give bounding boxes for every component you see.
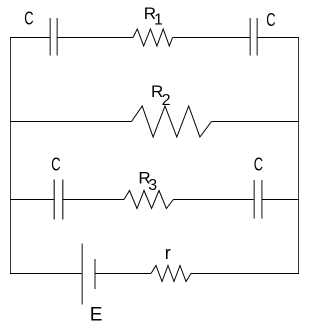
label C (top left capacitor): [24, 9, 33, 29]
svg-text:C: C: [24, 9, 33, 29]
svg-text:1: 1: [154, 12, 163, 29]
left rail wire: [10, 38, 12, 274]
label R3: [138, 169, 157, 194]
svg-text:E: E: [90, 305, 103, 326]
resistor R3: [124, 191, 173, 209]
label E: [90, 305, 103, 326]
svg-text:2: 2: [162, 92, 171, 109]
wire: resistor r to right rail: [191, 273, 299, 275]
svg-text:3: 3: [148, 177, 157, 194]
wire: capacitor C4 to right rail: [262, 199, 299, 201]
wire: bottom branch, left rail to battery E: [10, 273, 82, 275]
battery E (cell, long plate left / short plate right): [82, 244, 95, 305]
label C (top right capacitor): [266, 10, 275, 30]
resistor R1: [133, 29, 173, 46]
wire: second branch, left rail to resistor R2: [10, 121, 132, 123]
right rail wire: [298, 38, 300, 274]
wire: top branch, left rail to capacitor C1: [10, 37, 50, 39]
label R1: [144, 4, 163, 28]
resistor R2: [132, 106, 212, 137]
capacitor C (top right): [250, 18, 257, 56]
resistor r: [151, 266, 191, 282]
capacitor C (top left): [50, 18, 57, 56]
svg-text:r: r: [165, 243, 171, 263]
label r: [165, 243, 171, 263]
svg-text:C: C: [254, 155, 263, 175]
wire: resistor R1 to capacitor C2: [173, 37, 250, 39]
wire: capacitor C1 to resistor R1: [57, 37, 133, 39]
label C (middle right capacitor): [254, 155, 263, 175]
capacitor C (middle right): [254, 180, 262, 219]
svg-text:C: C: [51, 155, 60, 175]
wire: resistor R3 to capacitor C4: [173, 199, 254, 201]
wire: battery E to resistor r: [95, 273, 151, 275]
label R2: [151, 82, 171, 109]
wire: third branch, left rail to capacitor C3: [10, 199, 54, 201]
wire: resistor R2 to right rail: [212, 121, 300, 123]
wire: capacitor C2 to right rail: [257, 37, 299, 39]
wire: capacitor C3 to resistor R3: [63, 199, 124, 201]
label C (middle left capacitor): [51, 155, 60, 175]
svg-text:C: C: [266, 10, 275, 30]
capacitor C (middle left): [54, 180, 63, 220]
